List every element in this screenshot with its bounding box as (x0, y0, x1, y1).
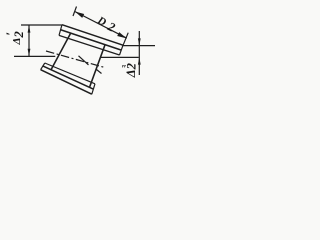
svg-text:2: 2 (12, 31, 26, 38)
svg-text:Δ: Δ (11, 38, 23, 46)
svg-text:2: 2 (124, 63, 138, 70)
